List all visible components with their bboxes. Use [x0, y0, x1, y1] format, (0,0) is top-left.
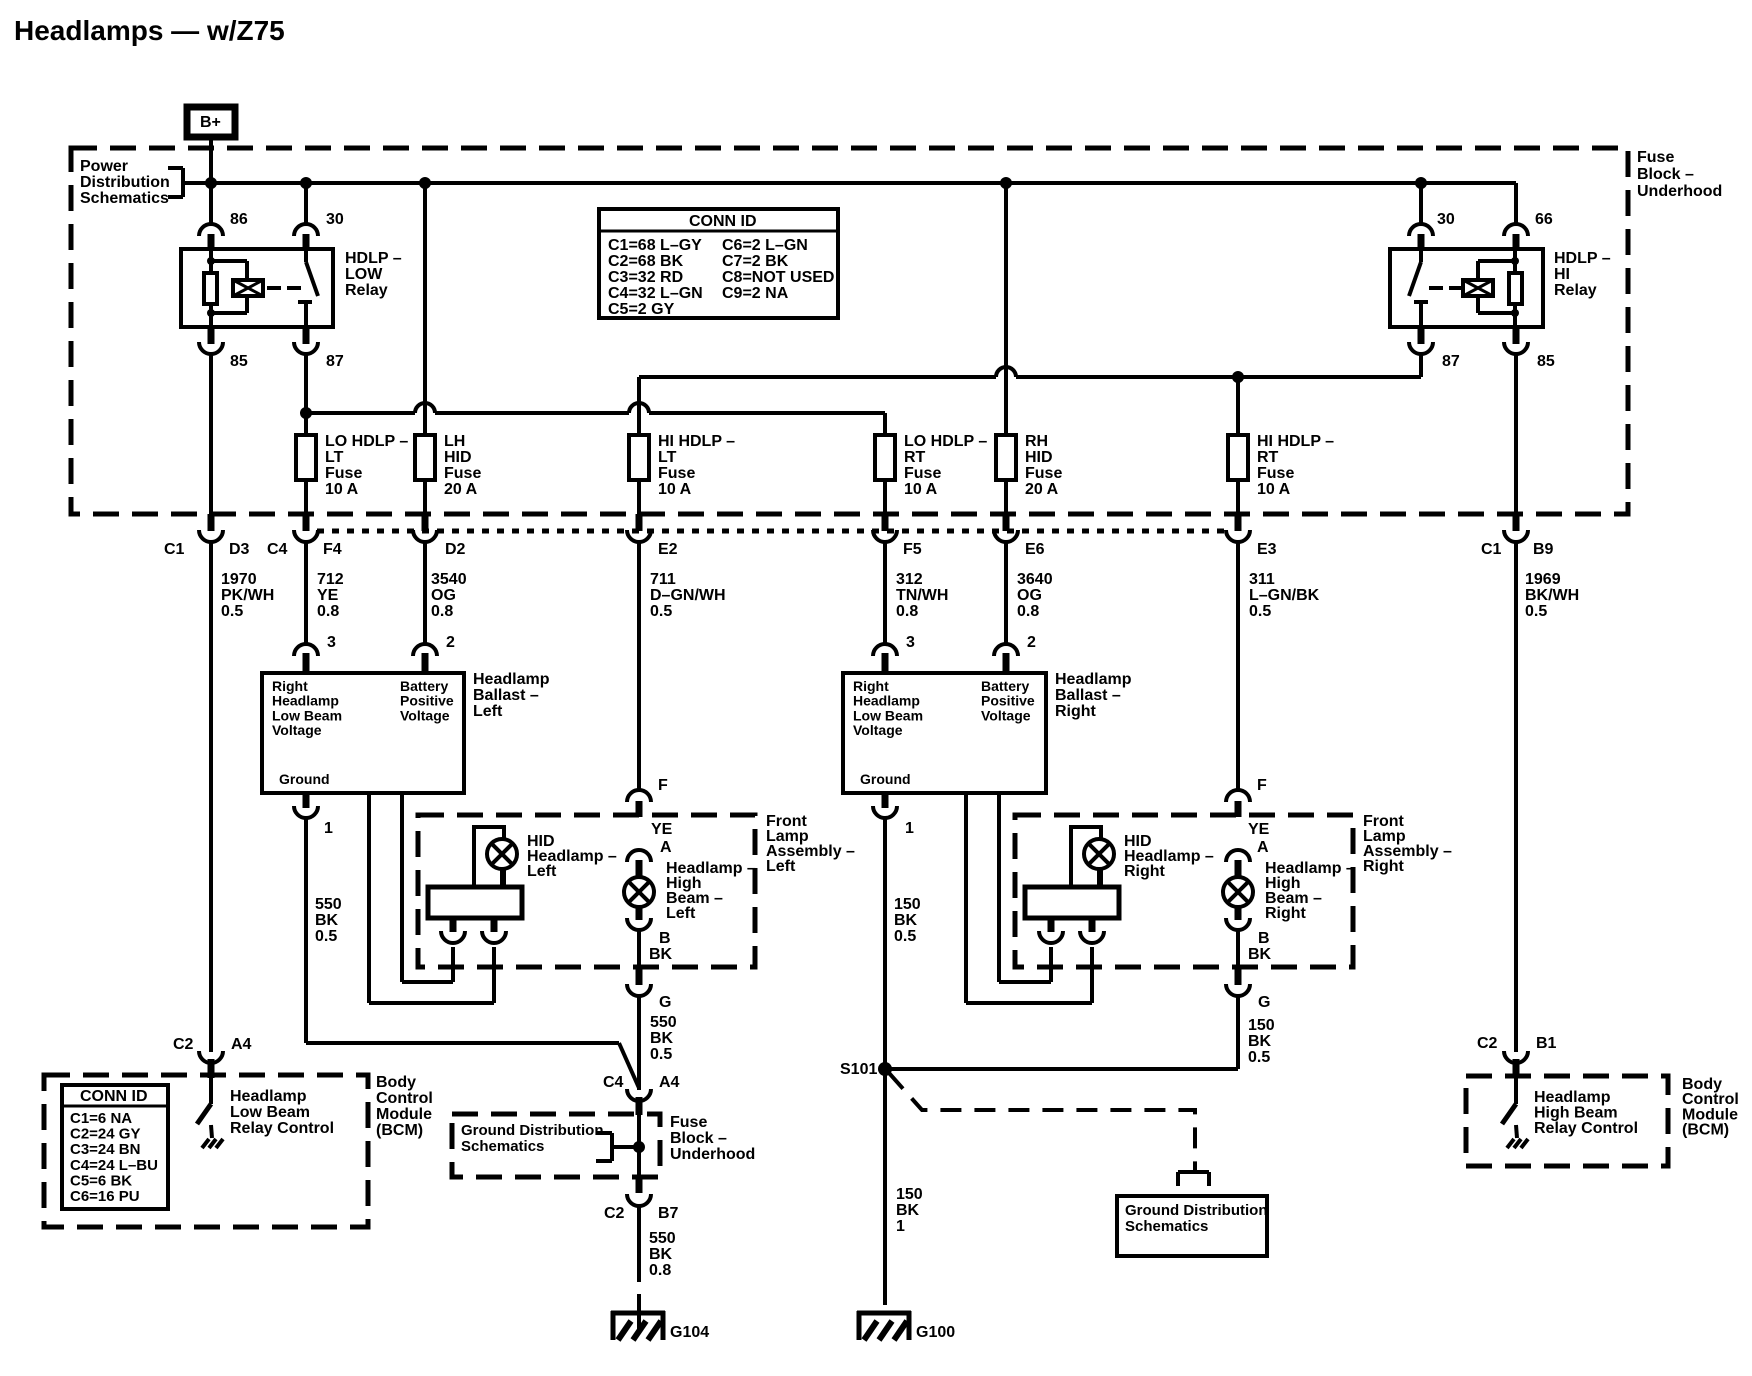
- fuse block underhood small dashed box: [452, 1114, 660, 1177]
- svg-text:C8=NOT USED: C8=NOT USED: [722, 269, 834, 286]
- svg-text:Left: Left: [527, 863, 557, 880]
- svg-text:Headlamp: Headlamp: [473, 671, 550, 688]
- label S101: [840, 1061, 877, 1078]
- wire dashed to G104: [637, 1262, 641, 1332]
- HID headlamp right base: [1025, 887, 1119, 918]
- svg-text:HDLP –: HDLP –: [1554, 250, 1611, 267]
- svg-text:G100: G100: [916, 1324, 955, 1341]
- relay K2 coil: [1463, 280, 1493, 296]
- svg-text:A4: A4: [231, 1036, 252, 1053]
- svg-text:10 A: 10 A: [1257, 481, 1291, 498]
- svg-text:YE: YE: [651, 821, 673, 838]
- svg-text:D3: D3: [229, 541, 250, 558]
- label E3: [1257, 541, 1277, 558]
- svg-text:(BCM): (BCM): [376, 1122, 423, 1139]
- svg-text:30: 30: [326, 211, 344, 228]
- ballast left text right headlamp low beam voltage: [272, 678, 342, 738]
- relay K2 actuation dashes: [1429, 286, 1461, 290]
- label circuit 3640 OG 0.8: [1017, 571, 1053, 620]
- labels C1 D3: [164, 541, 250, 558]
- svg-text:C4: C4: [603, 1074, 624, 1091]
- svg-text:Ground: Ground: [860, 771, 911, 787]
- svg-text:Left: Left: [666, 905, 696, 922]
- svg-text:1969: 1969: [1525, 571, 1561, 588]
- labels C1 B9: [1481, 541, 1554, 558]
- svg-text:Voltage: Voltage: [853, 722, 903, 738]
- label B BK left: [649, 930, 673, 963]
- svg-text:0.5: 0.5: [650, 1046, 672, 1063]
- fuse RH HID 20A: [996, 435, 1016, 480]
- svg-text:BK/WH: BK/WH: [1525, 587, 1579, 604]
- svg-text:F5: F5: [903, 541, 922, 558]
- svg-text:87: 87: [326, 353, 344, 370]
- svg-text:711: 711: [650, 571, 676, 588]
- svg-text:Headlamp: Headlamp: [272, 693, 339, 709]
- node bus at LH HID fuse: [419, 177, 431, 189]
- label HID headlamp left: [527, 833, 617, 880]
- svg-text:E6: E6: [1025, 541, 1045, 558]
- node 87-HI junction: [1232, 371, 1244, 383]
- svg-text:311: 311: [1249, 571, 1275, 588]
- connector C2/B1 right BCM: [1504, 1051, 1528, 1078]
- svg-text:Headlamp: Headlamp: [230, 1088, 307, 1105]
- label F5: [903, 541, 922, 558]
- svg-text:Right: Right: [853, 678, 889, 694]
- svg-text:B: B: [659, 930, 671, 947]
- svg-text:Low Beam: Low Beam: [853, 707, 923, 723]
- fuse HI HDLP-LT 10A: [629, 435, 649, 480]
- svg-text:LH: LH: [444, 433, 465, 450]
- svg-text:BK: BK: [315, 912, 339, 929]
- fuse LH HID 20A: [415, 435, 435, 480]
- headlamp ballast right box: [843, 673, 1046, 793]
- svg-text:85: 85: [1537, 353, 1555, 370]
- label circuit 711 D-GN/WH 0.5: [650, 571, 726, 620]
- svg-text:10 A: 10 A: [904, 481, 938, 498]
- labels C2 B7: [604, 1205, 679, 1222]
- conn id table (BCM): [62, 1085, 168, 1209]
- label pin 2 right: [1027, 634, 1036, 651]
- ballast left ground pin 1 connector: [294, 793, 318, 1043]
- label power distribution schematics: [80, 158, 170, 207]
- label 87: [326, 353, 344, 370]
- label body control module right: [1682, 1076, 1739, 1139]
- svg-text:C5=2 GY: C5=2 GY: [608, 301, 675, 318]
- BCM left switch headlamp low beam relay control: [197, 1078, 223, 1148]
- relay K1 pin 87 connector: [294, 327, 318, 435]
- battery feed B+ terminal: [187, 107, 235, 137]
- svg-text:Headlamp: Headlamp: [1055, 671, 1132, 688]
- connector F left: [627, 790, 651, 817]
- svg-text:550: 550: [650, 1014, 677, 1031]
- svg-text:Distribution: Distribution: [80, 174, 170, 191]
- wire relay K1 87 to LO fuses: [306, 413, 885, 435]
- node bus at relay HI pin 30: [1415, 177, 1427, 189]
- bracket power distribution: [168, 168, 213, 197]
- relay HDLP-LOW K1 box: [181, 249, 333, 327]
- connector E2: [627, 480, 651, 790]
- label pin 3 right: [906, 634, 915, 651]
- svg-text:C3=24 BN: C3=24 BN: [70, 1141, 140, 1158]
- ballast left pin 3 connector: [294, 644, 318, 673]
- svg-text:C9=2 NA: C9=2 NA: [722, 285, 789, 302]
- label circuit 1969 BK/WH 0.5: [1525, 571, 1579, 620]
- ballast left output wires to lamp: [369, 793, 494, 1003]
- svg-text:150: 150: [894, 896, 921, 913]
- ballast left text battery positive voltage: [400, 678, 454, 723]
- relay K2 pin 87 connector: [1409, 327, 1433, 377]
- svg-text:G: G: [659, 994, 671, 1011]
- label fuse LO HDLP-RT: [904, 433, 987, 498]
- svg-text:L–GN/BK: L–GN/BK: [1249, 587, 1320, 604]
- label F right: [1257, 777, 1267, 794]
- label YE A right: [1248, 821, 1270, 856]
- HID headlamp left shield: [474, 827, 504, 887]
- relay K1 switch: [298, 249, 318, 327]
- ballast right text ground: [860, 771, 911, 787]
- svg-text:HID: HID: [1025, 449, 1053, 466]
- ballast right pin 3 connector: [873, 644, 897, 673]
- svg-text:Left: Left: [766, 858, 796, 875]
- svg-text:2: 2: [446, 634, 455, 651]
- svg-text:C1=6 NA: C1=6 NA: [70, 1110, 132, 1127]
- label circuit 311 L-GN/BK 0.5: [1249, 571, 1320, 620]
- label circuit 150 BK 1: [896, 1186, 923, 1235]
- svg-text:85: 85: [230, 353, 248, 370]
- svg-text:C2: C2: [604, 1205, 625, 1222]
- svg-text:OG: OG: [431, 587, 456, 604]
- connector F5: [873, 480, 897, 645]
- connector C4/A4: [627, 1089, 651, 1115]
- svg-text:Left: Left: [473, 703, 503, 720]
- relay K2 pin 30 wire+connector: [1409, 183, 1433, 249]
- relay K2 coil resistor: [1509, 273, 1522, 304]
- svg-text:C1: C1: [1481, 541, 1502, 558]
- BCM left dashed box: [44, 1075, 368, 1227]
- connector E3: [1226, 480, 1250, 790]
- node bus at B+: [205, 177, 217, 189]
- svg-text:C2: C2: [173, 1036, 194, 1053]
- svg-text:HI HDLP –: HI HDLP –: [658, 433, 735, 450]
- conn id table (fuse block): [599, 209, 838, 318]
- svg-text:LT: LT: [325, 449, 344, 466]
- label fuse RH HID: [1025, 433, 1062, 498]
- svg-text:Fuse: Fuse: [1637, 149, 1674, 166]
- label circuit 712 YE 0.8: [317, 571, 344, 620]
- ballast right output wires to lamp: [966, 793, 1092, 1003]
- svg-text:0.5: 0.5: [1525, 603, 1547, 620]
- relay HDLP-HI K2 box: [1390, 249, 1543, 327]
- svg-text:S101: S101: [840, 1061, 877, 1078]
- svg-text:BK: BK: [649, 1246, 673, 1263]
- svg-text:RH: RH: [1025, 433, 1048, 450]
- svg-text:A: A: [660, 839, 672, 856]
- svg-text:E3: E3: [1257, 541, 1277, 558]
- svg-text:BK: BK: [650, 1030, 674, 1047]
- label fuse HI HDLP-LT: [658, 433, 735, 498]
- svg-text:CONN ID: CONN ID: [80, 1088, 148, 1105]
- label 87 right: [1442, 353, 1460, 370]
- label circuit 1970 PK/WH 0.5: [221, 571, 274, 620]
- svg-text:Battery: Battery: [981, 678, 1029, 694]
- svg-text:Relay Control: Relay Control: [1534, 1120, 1638, 1137]
- svg-text:Headlamp: Headlamp: [1534, 1089, 1611, 1106]
- svg-text:0.8: 0.8: [649, 1262, 671, 1279]
- wire HI-RT fuse feed: [1236, 377, 1240, 435]
- label F left: [658, 777, 668, 794]
- svg-text:C2=24 GY: C2=24 GY: [70, 1126, 140, 1143]
- label pin 2 left: [446, 634, 455, 651]
- connector A right: [1226, 850, 1250, 877]
- relay K1 coil resistor: [204, 273, 217, 304]
- svg-text:C4=24 L–BU: C4=24 L–BU: [70, 1157, 158, 1174]
- label circuit 550 BK 0.5 highbeam left: [650, 1014, 677, 1063]
- label headlamp high beam right: [1265, 860, 1355, 922]
- label 86: [230, 211, 248, 228]
- svg-text:0.8: 0.8: [317, 603, 339, 620]
- ballast right pin 2 connector: [994, 644, 1018, 673]
- ground G104: [611, 1311, 709, 1341]
- svg-text:10 A: 10 A: [325, 481, 359, 498]
- svg-text:Relay: Relay: [345, 282, 388, 299]
- connector G right (lamp to harness): [1226, 966, 1250, 1069]
- label D2: [445, 541, 466, 558]
- svg-text:66: 66: [1535, 211, 1553, 228]
- svg-text:PK/WH: PK/WH: [221, 587, 274, 604]
- svg-text:Right: Right: [1055, 703, 1097, 720]
- hop over LH HID wire: [415, 403, 435, 413]
- svg-text:Fuse: Fuse: [1025, 465, 1062, 482]
- svg-text:Low Beam: Low Beam: [230, 1104, 310, 1121]
- fuse HI HDLP-RT 10A: [1228, 435, 1248, 480]
- svg-text:Body: Body: [376, 1074, 416, 1091]
- svg-text:BK: BK: [896, 1202, 920, 1219]
- svg-text:F4: F4: [323, 541, 342, 558]
- node ground distribution tap: [633, 1141, 645, 1153]
- svg-text:Positive: Positive: [981, 693, 1035, 709]
- front lamp assembly right dashed box: [1015, 815, 1353, 967]
- bracket ground distribution bottom: [1178, 1172, 1209, 1186]
- svg-text:Control: Control: [376, 1090, 433, 1107]
- svg-text:BK: BK: [1248, 1033, 1272, 1050]
- svg-text:C4=32 L–GN: C4=32 L–GN: [608, 285, 703, 302]
- svg-text:Fuse: Fuse: [670, 1114, 707, 1131]
- ballast left pin 2 connector: [413, 644, 437, 673]
- ballast right text right headlamp low beam voltage: [853, 678, 923, 738]
- svg-text:712: 712: [317, 571, 344, 588]
- svg-text:1: 1: [324, 820, 333, 837]
- svg-text:B1: B1: [1536, 1035, 1557, 1052]
- svg-text:3640: 3640: [1017, 571, 1053, 588]
- label G left: [659, 994, 671, 1011]
- label front lamp assembly left: [766, 813, 855, 875]
- relay K1 pin 86 wire+connector: [199, 183, 223, 249]
- label circuit 3540 OG 0.8: [431, 571, 467, 620]
- svg-text:C7=2 BK: C7=2 BK: [722, 253, 789, 270]
- svg-text:D–GN/WH: D–GN/WH: [650, 587, 726, 604]
- svg-text:F: F: [1257, 777, 1267, 794]
- svg-text:LOW: LOW: [345, 266, 383, 283]
- svg-text:B+: B+: [200, 114, 221, 131]
- wire RH HID column: [1004, 183, 1008, 435]
- relay K1 coil branch wiring: [207, 249, 247, 327]
- wire inside small fuse block box: [637, 1115, 641, 1177]
- connector B left: [627, 907, 651, 966]
- svg-text:C6=2 L–GN: C6=2 L–GN: [722, 237, 808, 254]
- fuse LO HDLP-RT 10A: [875, 435, 895, 480]
- label fuse LO HDLP-LT: [325, 433, 408, 498]
- label 66: [1535, 211, 1553, 228]
- connector G left (lamp to harness): [627, 966, 651, 1090]
- svg-text:2: 2: [1027, 634, 1036, 651]
- bus wire B+ feed: [183, 181, 1516, 185]
- label G right: [1258, 994, 1270, 1011]
- svg-text:Fuse: Fuse: [904, 465, 941, 482]
- svg-text:HI HDLP –: HI HDLP –: [1257, 433, 1334, 450]
- HID left base pins: [441, 918, 506, 943]
- svg-text:3: 3: [906, 634, 915, 651]
- labels C4 F4: [267, 541, 342, 558]
- svg-text:Block –: Block –: [670, 1130, 727, 1147]
- connector C1/D3: [199, 514, 223, 1052]
- label circuit 550 BK 0.8: [649, 1230, 676, 1279]
- svg-text:0.5: 0.5: [1248, 1049, 1270, 1066]
- svg-text:Right: Right: [1124, 863, 1166, 880]
- svg-text:Power: Power: [80, 158, 128, 175]
- front lamp assembly left dashed box: [418, 815, 755, 967]
- svg-text:0.8: 0.8: [1017, 603, 1039, 620]
- hop over RH HID wire: [996, 367, 1016, 377]
- svg-text:0.5: 0.5: [650, 603, 672, 620]
- svg-text:0.8: 0.8: [896, 603, 918, 620]
- svg-text:E2: E2: [658, 541, 678, 558]
- svg-text:Schematics: Schematics: [80, 190, 169, 207]
- svg-text:0.5: 0.5: [315, 928, 337, 945]
- svg-text:G: G: [1258, 994, 1270, 1011]
- svg-text:Right: Right: [272, 678, 308, 694]
- svg-text:Voltage: Voltage: [981, 707, 1031, 723]
- svg-text:Battery: Battery: [400, 678, 448, 694]
- high beam bulb left: [624, 877, 654, 907]
- svg-text:D2: D2: [445, 541, 466, 558]
- connector D2: [413, 480, 437, 645]
- svg-text:Relay Control: Relay Control: [230, 1120, 334, 1137]
- svg-text:TN/WH: TN/WH: [896, 587, 948, 604]
- node 87-LOW junction: [300, 407, 312, 419]
- svg-text:YE: YE: [317, 587, 339, 604]
- labels C2 B1: [1477, 1035, 1557, 1052]
- relay K2 pin 85 connector: [1504, 327, 1528, 516]
- relay K2 pin 66 wire+connector: [1504, 183, 1528, 249]
- bracket ground distribution left: [596, 1133, 637, 1161]
- label headlamp ballast left: [473, 671, 550, 720]
- label headlamp high beam left: [666, 860, 756, 922]
- svg-text:Schematics: Schematics: [461, 1138, 544, 1155]
- svg-text:20 A: 20 A: [1025, 481, 1059, 498]
- label circuit 150 BK 0.5 highbeam right: [1248, 1017, 1275, 1066]
- svg-text:C1: C1: [164, 541, 185, 558]
- svg-text:Positive: Positive: [400, 693, 454, 709]
- relay K1 pin 30 wire+connector: [294, 183, 318, 249]
- HID headlamp left base: [428, 887, 522, 918]
- svg-text:HID: HID: [444, 449, 472, 466]
- svg-text:Headlamp: Headlamp: [853, 693, 920, 709]
- relay K1 coil: [233, 280, 263, 296]
- label body control module left: [376, 1074, 433, 1139]
- label circuit 550 BK 0.5 left: [315, 896, 342, 945]
- label fuse block underhood: [1637, 149, 1722, 200]
- relay K1 actuation dashes: [267, 286, 301, 290]
- ballast right text battery positive voltage: [981, 678, 1035, 723]
- svg-text:High Beam: High Beam: [1534, 1105, 1618, 1122]
- svg-text:BK: BK: [1248, 946, 1272, 963]
- label B BK right: [1248, 930, 1272, 963]
- label fuse LH HID: [444, 433, 481, 498]
- svg-text:Block –: Block –: [1637, 166, 1694, 183]
- label pin 1 right: [905, 820, 914, 837]
- svg-text:LO HDLP –: LO HDLP –: [325, 433, 408, 450]
- svg-text:LT: LT: [658, 449, 677, 466]
- svg-text:20 A: 20 A: [444, 481, 478, 498]
- label 30 right: [1437, 211, 1455, 228]
- label 85 right: [1537, 353, 1555, 370]
- ground G100: [857, 1311, 955, 1341]
- svg-text:Ground Distribution: Ground Distribution: [1125, 1202, 1267, 1219]
- svg-text:C5=6 BK: C5=6 BK: [70, 1172, 132, 1189]
- label HID headlamp right: [1124, 833, 1214, 880]
- label circuit 150 BK 0.5 right ground: [894, 896, 921, 945]
- connector F right: [1226, 790, 1250, 817]
- svg-text:Fuse: Fuse: [325, 465, 362, 482]
- label 85: [230, 353, 248, 370]
- connector C4/F4: [294, 480, 318, 645]
- HID headlamp left bulb: [487, 839, 517, 887]
- svg-text:0.8: 0.8: [431, 603, 453, 620]
- svg-text:87: 87: [1442, 353, 1460, 370]
- title: [14, 15, 285, 46]
- svg-text:HDLP –: HDLP –: [345, 250, 402, 267]
- BCM right dashed box: [1466, 1076, 1668, 1166]
- svg-text:Module: Module: [376, 1106, 432, 1123]
- relay K2 switch: [1409, 249, 1428, 327]
- svg-text:A: A: [1257, 839, 1269, 856]
- svg-text:30: 30: [1437, 211, 1455, 228]
- wire B+ to bus: [209, 137, 213, 224]
- splice S101: [878, 1062, 892, 1076]
- svg-text:Fuse: Fuse: [658, 465, 695, 482]
- svg-text:BK: BK: [894, 912, 918, 929]
- svg-text:CONN ID: CONN ID: [689, 213, 757, 230]
- svg-text:0.5: 0.5: [894, 928, 916, 945]
- svg-text:150: 150: [896, 1186, 923, 1203]
- svg-text:Underhood: Underhood: [1637, 183, 1722, 200]
- svg-text:Headlamps — w/Z75: Headlamps — w/Z75: [14, 15, 285, 46]
- label relay HDLP-HI: [1554, 250, 1611, 299]
- svg-text:3540: 3540: [431, 571, 467, 588]
- connector E6: [994, 480, 1018, 645]
- connector A left: [627, 850, 651, 877]
- svg-text:Fuse: Fuse: [1257, 465, 1294, 482]
- svg-text:Fuse: Fuse: [444, 465, 481, 482]
- svg-text:0.5: 0.5: [1249, 603, 1271, 620]
- svg-text:Ground Distribution: Ground Distribution: [461, 1122, 603, 1139]
- ground distribution schematics box: [1117, 1196, 1267, 1256]
- label headlamp high beam relay control: [1534, 1089, 1638, 1137]
- svg-text:312: 312: [896, 571, 923, 588]
- svg-text:C4: C4: [267, 541, 288, 558]
- headlamp ballast left box: [262, 673, 464, 793]
- label relay HDLP-LOW: [345, 250, 402, 299]
